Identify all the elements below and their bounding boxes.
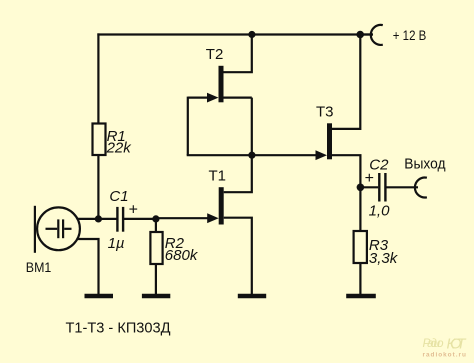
transistor T1 [219,187,224,224]
node D (rail / T2 drain) [248,31,255,38]
svg-text:1,0: 1,0 [369,203,391,220]
svg-text:T3: T3 [316,104,334,121]
watermark RadioKOT logo [423,336,467,353]
T2 gate arrow [207,93,219,103]
node E (rail / T3 drain / +12V) [356,31,364,39]
wire R1 top (rail to R1) [97,33,99,123]
wire T1 source to ground [224,218,252,294]
transistor T3 [327,123,332,159]
wire T2 loop bottom [187,154,252,156]
svg-text:КОТ: КОТ [447,337,467,353]
wire node C to T3 gate [252,154,320,156]
svg-text:680k: 680k [165,247,199,264]
wire node F to R3 [359,187,361,231]
svg-text:ВМ1: ВМ1 [26,259,52,275]
wire T2 loop right (source down) [251,98,253,156]
svg-text:Радио: Радио [423,336,444,350]
wire R2 bottom to ground [155,264,157,294]
wire C1 to node B [124,218,156,220]
svg-text:+: + [129,201,138,218]
svg-text:+ 12 В: + 12 В [393,27,427,43]
wire +12V top rail [97,33,373,35]
svg-text:22k: 22k [106,139,133,156]
T3 gate arrow [316,150,328,160]
wire node B to T1 gate [156,217,212,219]
svg-text:Выход: Выход [404,157,446,173]
wire C2 to output terminal [386,186,418,188]
svg-text:3,3k: 3,3k [369,250,399,267]
node A (R1 / BM1 / C1 junction) [95,215,102,222]
wire T3 source down to node F [332,155,360,187]
wire R1 bottom (R1 to node A) [97,155,99,219]
capacitor C1 [117,207,123,232]
microphone BM1 [35,206,80,253]
node F (T3 source / C2 / R3 junction) [357,184,365,192]
wire BM1 ground lead [77,239,98,294]
wire T3 drain up to rail [332,35,360,129]
wire node F to C2 [360,186,378,188]
svg-text:+: + [365,170,374,187]
transistor T2 [219,66,224,103]
wire node A to C1 [98,218,116,220]
resistor R3 [354,231,367,263]
wire T2 drain up to rail [223,35,251,73]
svg-text:T1: T1 [209,168,227,185]
wire +12V terminal lead [360,33,373,35]
wire T2 gate lead [188,96,212,98]
wire R3 bottom to ground [359,263,361,294]
svg-text:Т1-Т3 - КП303Д: Т1-Т3 - КП303Д [66,320,171,337]
ground (T1 source) [238,294,266,299]
resistor R2 [150,232,162,264]
svg-text:C1: C1 [109,188,128,205]
node C (T2 loop / T1 drain / T3 gate junction) [248,152,255,159]
terminal output (socket arc) [415,178,427,198]
ground (R2) [142,294,170,299]
svg-text:1µ: 1µ [108,235,125,252]
resistor R1 [93,124,106,156]
wire node B to R2 [155,219,157,232]
svg-text:T2: T2 [206,46,224,63]
capacitor C2 [379,173,385,202]
wire T2 source lead [223,96,251,98]
wire T2 gate loop left [187,97,189,156]
node B (C1 / R2 / T1 gate junction) [152,215,159,222]
T1 gate arrow [207,213,219,223]
terminal +12V (socket arc) [371,25,383,45]
ground (R3) [346,294,376,299]
ground (BM1) [85,294,114,299]
wire BM1 signal lead to node A [78,218,99,220]
svg-text:radiokot.ru: radiokot.ru [423,351,467,358]
wire T1 drain up to node C [224,156,252,193]
